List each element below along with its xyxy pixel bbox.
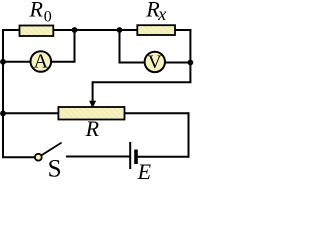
battery E long plate	[129, 142, 131, 169]
rheostat R body	[58, 107, 124, 120]
junction dot left rail ammeter	[0, 59, 6, 65]
svg-text:R: R	[85, 116, 100, 141]
svg-text:x: x	[157, 4, 166, 24]
wire right upper rail	[189, 29, 191, 82]
wire voltmeter branch	[119, 62, 191, 64]
wire voltmeter vertical	[119, 30, 121, 64]
wire wiper vertical	[92, 81, 94, 102]
battery E short plate	[134, 150, 138, 165]
svg-text:0: 0	[44, 8, 52, 25]
wire bottom right (battery to rail)	[136, 156, 190, 158]
resistor Rx body	[137, 25, 175, 35]
junction dot left rail rheostat	[0, 111, 6, 117]
wire ammeter branch	[3, 61, 75, 63]
wire right lower rail	[188, 112, 190, 158]
wire rheostat row	[3, 112, 189, 114]
voltmeter U-V circle	[145, 52, 165, 72]
ammeter U-A circle	[31, 51, 52, 72]
svg-text:A: A	[34, 51, 49, 73]
wire top	[2, 29, 191, 31]
svg-text:E: E	[137, 159, 152, 182]
wire bottom left (rail to switch pivot)	[2, 156, 35, 158]
wire ammeter vertical	[74, 30, 76, 63]
arrowhead of wiper	[89, 101, 96, 109]
junction dot top right-mid	[117, 27, 123, 33]
svg-text:V: V	[148, 52, 162, 73]
resistor R0 body	[20, 26, 54, 37]
switch S blade	[42, 143, 62, 156]
wire left rail	[2, 29, 4, 158]
switch S pivot	[35, 154, 42, 161]
svg-text:S: S	[48, 155, 62, 182]
junction dot top left-mid	[72, 27, 78, 33]
junction dot right rail voltmeter	[188, 60, 194, 66]
wire wiper horizontal	[93, 81, 192, 83]
wire battery to switch contact	[66, 156, 130, 158]
svg-text:R: R	[29, 0, 44, 22]
